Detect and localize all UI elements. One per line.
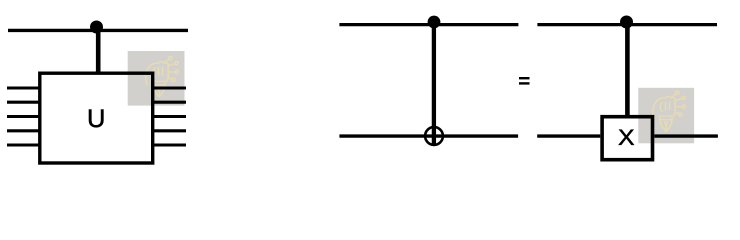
wire: vertical control link — [96, 27, 101, 73]
wire: left stub 5 — [7, 143, 40, 146]
wire: control qubit wire (top) — [8, 29, 188, 32]
control dot — [620, 16, 633, 29]
wire: right stub 1 — [152, 86, 186, 89]
wire: control qubit wire (top) — [537, 23, 717, 26]
gate U box — [40, 73, 153, 163]
watermark box 2 (gray square over X box right side) — [638, 88, 694, 144]
wire: target qubit wire (bottom) — [339, 134, 518, 137]
equals sign — [519, 77, 530, 79]
watermark icon 1 (cream hand-with-pen-and-circuits logo) — [146, 56, 179, 96]
wire: vertical control link — [625, 22, 630, 116]
wire: left stub 3 — [7, 115, 40, 118]
wire: vertical control link — [432, 22, 436, 146]
gate label U — [89, 110, 103, 128]
wire: right stub 2 — [152, 101, 186, 104]
wire: right stub 4 — [152, 129, 186, 132]
wire: left stub 2 — [7, 101, 40, 104]
watermark box 1 (gray square over U box top-right) — [128, 51, 185, 106]
gate label X — [619, 130, 634, 145]
gate X box — [602, 117, 652, 160]
wire: left stub 1 — [7, 86, 40, 89]
wire: target qubit wire left segment — [537, 134, 600, 137]
wire: target qubit wire right segment — [654, 134, 718, 137]
wire: control qubit wire (top) — [339, 23, 518, 26]
watermark icon 2 (cream hand-with-pen-and-circuits logo) — [653, 91, 686, 131]
wire: right stub 5 — [152, 143, 186, 146]
control dot — [428, 16, 441, 29]
wire: right stub 3 — [152, 115, 186, 118]
CNOT target circle — [425, 127, 443, 145]
control dot — [90, 21, 103, 34]
wire: left stub 4 — [7, 129, 40, 132]
